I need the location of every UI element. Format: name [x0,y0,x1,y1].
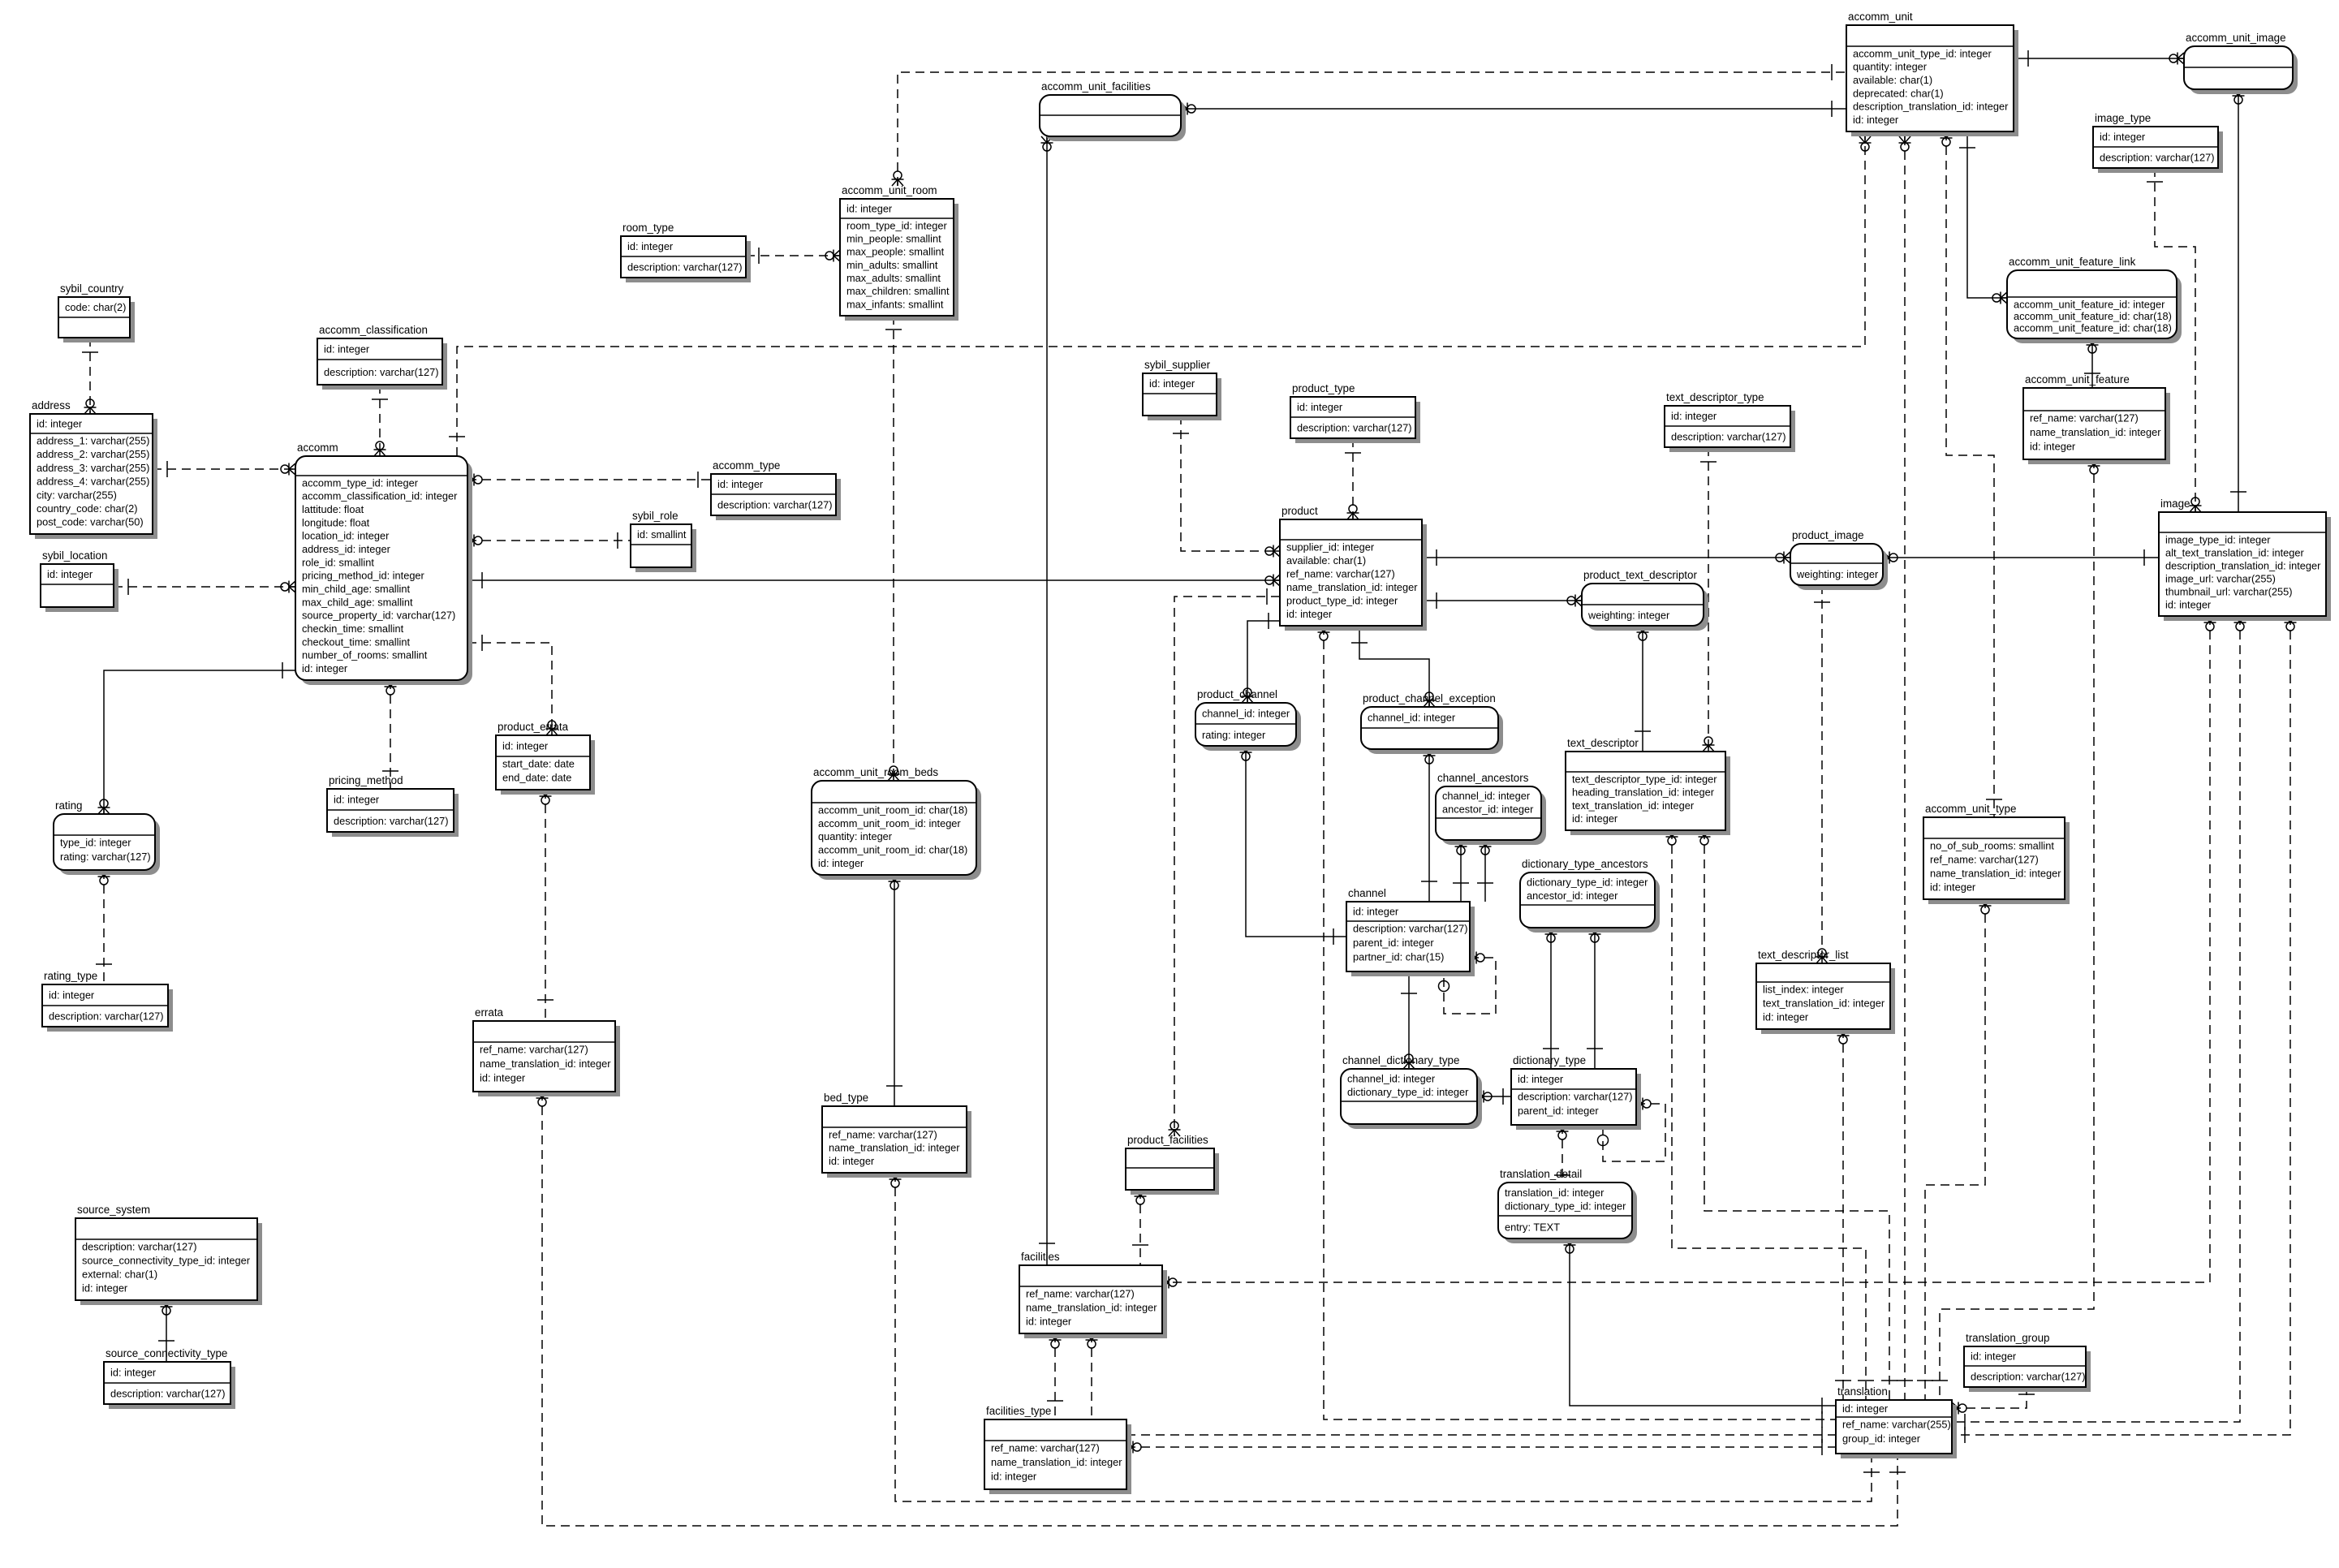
svg-text:id: integer: id: integer [846,203,893,215]
svg-text:accomm_classification_id: inte: accomm_classification_id: integer [302,490,458,502]
entity channel_dictionary_type [1341,1054,1482,1129]
rel accomm_unit-accomm_unit_type [1941,131,2003,817]
svg-text:accomm_unit_type: accomm_unit_type [1925,803,2016,815]
svg-text:id: integer: id: integer [480,1072,526,1084]
rel sybil_supplier-product [1173,416,1280,558]
rel image-translation b [1952,616,2297,1443]
rel product_channel_exception-channel [1421,749,1437,902]
svg-text:description: varchar(127): description: varchar(127) [1671,431,1786,443]
svg-text:id: integer: id: integer [110,1367,157,1379]
rel accomm-product_errata [467,635,558,735]
svg-text:id: integer: id: integer [1353,906,1399,918]
entity product [1280,505,1427,631]
svg-text:description: varchar(127): description: varchar(127) [1353,922,1468,934]
rel product-product_channel [1242,613,1281,703]
entity product_channel_exception [1361,692,1503,754]
svg-text:text_translation_id: integer: text_translation_id: integer [1572,799,1695,812]
svg-text:description: varchar(127): description: varchar(127) [1297,422,1412,434]
svg-text:text_descriptor_type_id: integ: text_descriptor_type_id: integer [1572,773,1717,785]
svg-text:ref_name: varchar(127): ref_name: varchar(127) [1930,853,2039,865]
rel text_descriptor_type-text_descriptor [1700,447,1717,752]
entity accomm_unit [1846,11,2018,136]
rel channel_dictionary_type-channel [1401,971,1417,1069]
entity accomm_unit_facilities [1040,80,1186,141]
rel dictionary_type-dictionary_type self [1598,1098,1666,1162]
svg-text:dictionary_type_id: integer: dictionary_type_id: integer [1505,1200,1626,1213]
svg-text:accomm_unit_room_id: char(18): accomm_unit_room_id: char(18) [818,803,967,816]
rel rating-rating_type [96,870,112,984]
svg-text:id: integer: id: integer [818,857,864,869]
entity image_type [2093,112,2223,173]
svg-text:min_adults: smallint: min_adults: smallint [846,259,938,271]
rel accomm_unit_room-accomm_unit [892,64,1847,186]
svg-text:room_type: room_type [622,222,674,234]
svg-text:dictionary_type_id: integer: dictionary_type_id: integer [1527,877,1648,889]
svg-text:deprecated: char(1): deprecated: char(1) [1853,87,1944,99]
svg-text:id: integer: id: integer [1930,881,1976,893]
rel dictionary_type-translation_detail [1554,1125,1570,1182]
entity pricing_method [327,774,459,837]
svg-text:start_date: date: start_date: date [502,757,575,769]
svg-text:translation_id: integer: translation_id: integer [1505,1187,1605,1199]
svg-text:group_id: integer: group_id: integer [1842,1432,1921,1445]
svg-text:channel_dictionary_type: channel_dictionary_type [1342,1054,1459,1066]
svg-text:supplier_id: integer: supplier_id: integer [1286,541,1375,553]
entity facilities_type [984,1405,1131,1494]
svg-text:address_2: varchar(255): address_2: varchar(255) [37,448,149,460]
rel accomm-sybil_role [467,532,631,549]
svg-text:id: integer: id: integer [829,1155,875,1167]
svg-text:thumbnail_url: varchar(255): thumbnail_url: varchar(255) [2165,585,2292,597]
entity text_descriptor_type [1665,391,1795,452]
svg-text:quantity: integer: quantity: integer [818,830,893,842]
rel accomm_unit-accomm_unit_image [2014,50,2184,67]
rel facilities-facilities_type b [1086,1333,1098,1419]
svg-text:city: varchar(255): city: varchar(255) [37,489,117,501]
rel image-translation a [1952,616,2246,1430]
svg-text:lattitude: float: lattitude: float [302,503,364,515]
svg-text:type_id: integer: type_id: integer [60,836,131,848]
rel accomm_classification-accomm [372,385,388,456]
rel product-translation [1318,626,1837,1428]
svg-text:name_translation_id: integer: name_translation_id: integer [480,1058,611,1070]
svg-text:max_child_age: smallint: max_child_age: smallint [302,596,413,608]
entity accomm_unit_room [840,184,958,321]
svg-text:accomm_type: accomm_type [713,459,780,472]
svg-text:sybil_role: sybil_role [632,510,678,522]
svg-text:id: integer: id: integer [1286,608,1333,620]
entity source_connectivity_type [104,1347,235,1409]
rel sybil_location-accomm [114,579,295,595]
rel product-product_facilities [1169,588,1281,1136]
svg-text:ref_name: varchar(127): ref_name: varchar(127) [480,1043,588,1055]
entity channel [1346,887,1475,976]
svg-text:name_translation_id: integer: name_translation_id: integer [2030,426,2161,438]
svg-text:checkin_time: smallint: checkin_time: smallint [302,622,404,635]
svg-text:product_type_id: integer: product_type_id: integer [1286,594,1398,606]
svg-text:pricing_method: pricing_method [329,774,403,786]
rel dictionary_type_ancestors-dictionary_type a [1543,928,1559,1069]
svg-text:rating_type: rating_type [44,970,97,982]
rel accomm_unit-accomm_unit_feature_link [1959,131,2007,304]
svg-text:facilities_type: facilities_type [986,1405,1051,1417]
rel accomm-accomm_unit [449,136,1872,456]
svg-text:address: address [32,399,71,411]
svg-text:ref_name: varchar(127): ref_name: varchar(127) [1026,1287,1135,1299]
svg-text:sybil_supplier: sybil_supplier [1144,359,1211,371]
svg-text:id: integer: id: integer [82,1282,128,1294]
svg-text:product: product [1281,505,1318,517]
entity translation_group [1964,1332,2091,1392]
rel accomm-accomm_type [467,472,711,488]
svg-text:id: integer: id: integer [1297,401,1343,413]
entity bed_type [822,1092,971,1178]
rel accomm_unit_room-accomm_unit_room_beds [885,316,902,781]
svg-text:source_connectivity_type_id: i: source_connectivity_type_id: integer [82,1254,251,1266]
svg-text:heading_translation_id: intege: heading_translation_id: integer [1572,786,1715,799]
svg-text:bed_type: bed_type [824,1092,868,1104]
svg-text:id: integer: id: integer [47,568,93,580]
rel product-product_image [1422,549,1790,566]
svg-text:product_type: product_type [1292,382,1355,394]
svg-text:id: integer: id: integer [2100,131,2146,143]
entity accomm_type [711,459,841,520]
rel product_errata-errata [537,790,554,1021]
entity text_descriptor_list [1756,949,1895,1034]
svg-text:name_translation_id: integer: name_translation_id: integer [1930,867,2061,879]
svg-text:id: integer: id: integer [324,343,370,355]
svg-text:accomm_unit_facilities: accomm_unit_facilities [1041,80,1151,93]
svg-text:name_translation_id: integer: name_translation_id: integer [991,1456,1122,1468]
svg-text:partner_id: char(15): partner_id: char(15) [1353,951,1444,963]
svg-text:role_id: smallint: role_id: smallint [302,556,374,568]
svg-text:accomm_unit_feature_id: char(1: accomm_unit_feature_id: char(18) [2014,322,2172,334]
entity dictionary_type_ancestors [1520,858,1660,933]
rel channel_ancestors-channel b [1477,840,1493,902]
svg-text:sybil_country: sybil_country [60,282,123,295]
entity translation [1836,1385,1957,1458]
rel translation-translation_group [1952,1387,2035,1415]
rel source_system-source_connectivity_type [158,1300,174,1362]
svg-text:accomm_unit_feature_id: intege: accomm_unit_feature_id: integer [2014,298,2165,310]
svg-text:translation: translation [1837,1385,1888,1398]
svg-text:dictionary_type_ancestors: dictionary_type_ancestors [1522,858,1648,870]
svg-text:channel_id: integer: channel_id: integer [1442,790,1531,802]
svg-text:id: integer: id: integer [2030,441,2076,453]
svg-text:product_channel: product_channel [1197,688,1277,700]
svg-text:alt_text_translation_id: integ: alt_text_translation_id: integer [2165,546,2304,558]
rel product_image-text_descriptor_list [1814,585,1830,963]
svg-text:id: integer: id: integer [1671,410,1717,422]
svg-text:ref_name: varchar(127): ref_name: varchar(127) [2030,411,2139,424]
svg-text:id: integer: id: integer [49,989,95,1002]
svg-text:id: integer: id: integer [1971,1350,2017,1363]
svg-text:channel_id: integer: channel_id: integer [1202,708,1290,720]
svg-text:external: char(1): external: char(1) [82,1268,157,1280]
svg-text:name_translation_id: integer: name_translation_id: integer [1286,581,1418,593]
svg-text:description: varchar(127): description: varchar(127) [1971,1371,2086,1383]
svg-text:address_id: integer: address_id: integer [302,543,391,555]
rel sybil_country-address [82,338,98,414]
svg-text:accomm_unit_type_id: integer: accomm_unit_type_id: integer [1853,47,1992,59]
svg-text:accomm_unit_feature_id: char(1: accomm_unit_feature_id: char(18) [2014,310,2172,322]
rel product_text_descriptor-text_descriptor [1635,626,1651,752]
entity channel_ancestors [1436,772,1546,845]
rel product_image-image [1883,549,2159,566]
entity accomm [295,442,472,685]
svg-text:code: char(2): code: char(2) [65,301,126,313]
entity sybil_country [58,282,135,342]
svg-text:translation_detail: translation_detail [1500,1168,1582,1180]
svg-text:description: varchar(127): description: varchar(127) [334,815,449,827]
svg-text:id: integer: id: integer [991,1471,1037,1483]
entity sybil_location [41,549,118,612]
rel room_type-accomm_unit_room [746,248,840,264]
svg-text:channel_ancestors: channel_ancestors [1437,772,1529,784]
svg-text:source_system: source_system [77,1204,150,1216]
svg-text:id: integer: id: integer [1518,1073,1564,1085]
svg-text:text_translation_id: integer: text_translation_id: integer [1763,997,1885,1009]
svg-text:description: varchar(127): description: varchar(127) [717,499,833,511]
svg-text:id: integer: id: integer [1149,377,1195,390]
svg-text:translation_group: translation_group [1966,1332,2049,1344]
svg-text:entry: TEXT: entry: TEXT [1505,1221,1560,1234]
entity sybil_role [631,510,696,572]
rel channel-channel self [1439,952,1497,1014]
svg-text:id: integer: id: integer [1026,1315,1072,1327]
svg-text:id: integer: id: integer [37,418,83,430]
svg-text:description: varchar(127): description: varchar(127) [2100,152,2215,164]
svg-text:available: char(1): available: char(1) [1853,74,1932,86]
svg-text:ref_name: varchar(255): ref_name: varchar(255) [1842,1418,1951,1430]
rel product_channel-channel [1240,746,1347,945]
svg-text:channel_id: integer: channel_id: integer [1347,1073,1436,1085]
rel image_type-image [2147,168,2202,512]
rel product_facilities-facilities [1132,1190,1148,1265]
rel accomm_unit_image-image [2230,89,2246,512]
svg-text:address_3: varchar(255): address_3: varchar(255) [37,462,149,474]
svg-text:rating: rating [55,799,83,812]
entity text_descriptor [1566,737,1730,835]
rel text_descriptor-translation b [1699,830,1898,1400]
rel accomm-pricing_method [382,680,398,789]
svg-text:ref_name: varchar(127): ref_name: varchar(127) [1286,567,1395,579]
svg-text:quantity: integer: quantity: integer [1853,61,1928,73]
rel accomm_unit_facilities-facilities [1039,136,1055,1265]
svg-text:post_code: varchar(50): post_code: varchar(50) [37,516,144,528]
rel accomm_unit_room_beds-bed_type [886,875,902,1106]
rel channel_dictionary_type-dictionary_type [1477,1088,1511,1105]
svg-text:accomm_unit_room_beds: accomm_unit_room_beds [813,766,938,778]
rel accomm_unit_type-translation [1917,899,1992,1400]
entity product_errata [496,721,595,795]
svg-text:accomm: accomm [297,442,338,454]
svg-text:pricing_method_id: integer: pricing_method_id: integer [302,570,425,582]
rel facilities_type-translation b [1126,1439,1836,1455]
entity source_system [75,1204,262,1305]
entity errata [473,1006,620,1096]
svg-text:min_people: smallint: min_people: smallint [846,233,941,245]
svg-text:description: varchar(127): description: varchar(127) [82,1240,197,1252]
entity accomm_unit_image [2184,32,2298,94]
rel facilities-facilities_type a [1047,1333,1063,1419]
svg-text:rating: integer: rating: integer [1202,729,1266,741]
svg-text:id: integer: id: integer [2165,598,2212,610]
svg-text:checkout_time: smallint: checkout_time: smallint [302,635,410,648]
svg-text:product_errata: product_errata [498,721,569,733]
rel product-product_channel_exception [1351,626,1436,707]
svg-text:text_descriptor_type: text_descriptor_type [1666,391,1764,403]
svg-text:address_1: varchar(255): address_1: varchar(255) [37,434,149,446]
entity rating_type [42,970,173,1032]
rel dictionary_type_ancestors-dictionary_type b [1587,928,1603,1069]
svg-text:description: varchar(127): description: varchar(127) [627,261,743,274]
svg-text:description_translation_id: in: description_translation_id: integer [2165,559,2321,571]
svg-text:id: integer: id: integer [627,240,674,252]
svg-text:id: smallint: id: smallint [637,528,687,541]
svg-text:text_descriptor: text_descriptor [1567,737,1639,749]
svg-text:country_code: char(2): country_code: char(2) [37,502,137,515]
rel accomm_unit_feature-translation [1932,459,2100,1400]
svg-text:errata: errata [475,1006,504,1019]
svg-text:name_translation_id: integer: name_translation_id: integer [829,1142,960,1154]
svg-text:dictionary_type_id: integer: dictionary_type_id: integer [1347,1086,1469,1098]
svg-text:number_of_rooms: smallint: number_of_rooms: smallint [302,649,428,661]
svg-text:ancestor_id: integer: ancestor_id: integer [1442,803,1534,816]
entity translation_detail [1498,1168,1637,1243]
rel accomm-product [467,572,1280,588]
rel translation_detail-translation [1564,1238,1837,1414]
svg-text:id: integer: id: integer [302,662,348,674]
svg-text:id: integer: id: integer [502,740,549,752]
svg-text:list_index: integer: list_index: integer [1763,983,1844,995]
svg-text:product_image: product_image [1792,529,1864,541]
svg-text:channel: channel [1348,887,1386,899]
svg-text:min_child_age: smallint: min_child_age: smallint [302,583,410,595]
svg-text:ancestor_id: integer: ancestor_id: integer [1527,890,1618,902]
rel accomm_unit-translation [1897,136,1913,1400]
entity product_type [1290,382,1420,443]
svg-text:dictionary_type: dictionary_type [1513,1054,1586,1066]
svg-text:id: integer: id: integer [717,478,764,490]
svg-text:product_facilities: product_facilities [1127,1134,1208,1146]
rel text_descriptor_list-translation [1835,1029,1851,1400]
svg-text:max_people: smallint: max_people: smallint [846,246,945,258]
svg-text:accomm_type_id: integer: accomm_type_id: integer [302,476,419,489]
entity sybil_supplier [1143,359,1221,420]
svg-text:ref_name: varchar(127): ref_name: varchar(127) [829,1128,937,1140]
svg-text:description: varchar(127): description: varchar(127) [1518,1090,1633,1102]
entity product_text_descriptor [1582,569,1708,631]
svg-text:sybil_location: sybil_location [42,549,107,562]
rel accomm_unit_feature_link-accomm_unit_feature [2084,338,2100,388]
entity accomm_unit_room_beds [812,766,981,880]
entity accomm_unit_feature [2023,373,2170,464]
svg-text:max_adults: smallint: max_adults: smallint [846,272,941,284]
svg-text:name_translation_id: integer: name_translation_id: integer [1026,1301,1157,1313]
svg-text:id: integer: id: integer [1853,114,1899,126]
svg-text:location_id: integer: location_id: integer [302,530,390,542]
entity address [30,399,157,539]
svg-text:accomm_unit_room: accomm_unit_room [842,184,937,196]
svg-text:description_translation_id: in: description_translation_id: integer [1853,101,2009,113]
svg-text:source_connectivity_type: source_connectivity_type [106,1347,227,1359]
svg-text:product_channel_exception: product_channel_exception [1363,692,1496,704]
svg-text:parent_id: integer: parent_id: integer [1353,937,1434,949]
svg-text:accomm_unit_feature_link: accomm_unit_feature_link [2009,256,2136,268]
rel product_type-product [1345,438,1361,519]
entity product_image [1790,529,1888,590]
svg-text:weighting: integer: weighting: integer [1796,568,1879,580]
svg-text:product_text_descriptor: product_text_descriptor [1583,569,1697,581]
entity accomm_unit_type [1923,803,2070,904]
svg-text:max_infants: smallint: max_infants: smallint [846,298,944,310]
svg-text:parent_id: integer: parent_id: integer [1518,1105,1599,1117]
svg-text:weighting: integer: weighting: integer [1587,610,1670,622]
rel address-accomm [153,461,295,477]
rel channel_ancestors-channel a [1453,840,1469,902]
svg-text:id: integer: id: integer [1842,1402,1889,1415]
svg-text:address_4: varchar(255): address_4: varchar(255) [37,476,149,488]
svg-text:longitude: float: longitude: float [302,516,370,528]
svg-text:room_type_id: integer: room_type_id: integer [846,219,948,231]
entity accomm_unit_feature_link [2007,256,2182,343]
svg-text:image_url: varchar(255): image_url: varchar(255) [2165,572,2276,584]
entity product_facilities [1126,1134,1219,1195]
svg-text:max_children: smallint: max_children: smallint [846,285,950,297]
rel text_descriptor-translation a [1666,830,1875,1400]
entity facilities [1019,1251,1167,1338]
svg-text:accomm_unit_image: accomm_unit_image [2186,32,2286,44]
svg-text:accomm_unit_room_id: integer: accomm_unit_room_id: integer [818,817,961,829]
svg-text:end_date: date: end_date: date [502,771,571,783]
entity product_channel [1195,688,1301,751]
rel accomm-rating [98,662,296,814]
entity image [2159,498,2331,621]
svg-text:image_type: image_type [2095,112,2151,124]
svg-text:description: varchar(127): description: varchar(127) [110,1388,226,1400]
svg-text:available: char(1): available: char(1) [1286,554,1366,566]
svg-text:image_type_id: integer: image_type_id: integer [2165,533,2271,545]
svg-text:ref_name: varchar(127): ref_name: varchar(127) [991,1441,1100,1454]
entity dictionary_type [1511,1054,1641,1130]
svg-text:image: image [2160,498,2190,510]
svg-text:rating: varchar(127): rating: varchar(127) [60,851,151,863]
svg-text:accomm_unit_feature: accomm_unit_feature [2025,373,2130,386]
entity accomm_classification [317,324,447,390]
entity room_type [621,222,751,282]
svg-text:source_property_id: varchar(12: source_property_id: varchar(127) [302,610,455,622]
rel facilities_type-translation a [1126,1427,1836,1443]
svg-text:no_of_sub_rooms: smallint: no_of_sub_rooms: smallint [1930,839,2054,851]
svg-text:accomm_unit: accomm_unit [1848,11,1913,23]
svg-text:id: integer: id: integer [334,794,380,806]
svg-text:description: varchar(127): description: varchar(127) [49,1010,164,1023]
svg-text:text_descriptor_list: text_descriptor_list [1758,949,1849,961]
svg-text:facilities: facilities [1021,1251,1060,1263]
svg-text:id: integer: id: integer [1572,812,1618,825]
rel errata-translation [536,1092,1906,1526]
svg-text:description: varchar(127): description: varchar(127) [324,366,439,378]
svg-text:accomm_classification: accomm_classification [319,324,428,336]
rel image-facilities [1162,616,2216,1289]
svg-text:accomm_unit_room_id: char(18): accomm_unit_room_id: char(18) [818,844,967,856]
svg-text:channel_id: integer: channel_id: integer [1368,712,1456,724]
rel product-product_text_descriptor [1422,592,1582,609]
entity rating [54,799,160,875]
rel accomm_unit_facilities-accomm_unit [1181,101,1846,117]
svg-text:id: integer: id: integer [1763,1010,1809,1023]
